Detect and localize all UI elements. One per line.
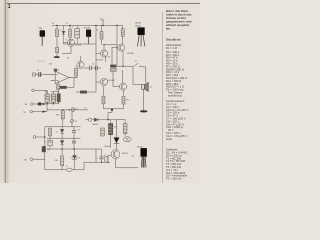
svg-text:BC548: BC548: [84, 28, 90, 30]
node pad: [111, 108, 113, 110]
potentiometer P1: [71, 108, 75, 112]
svg-text:BD242: BD242: [135, 25, 141, 27]
switch S1: [131, 63, 146, 84]
wire R14 bottom: [62, 119, 64, 127]
node dot collector: [103, 44, 104, 45]
lamp La1: [123, 137, 131, 142]
capacitor C7: [91, 66, 101, 70]
wire drop R6: [101, 26, 103, 32]
svg-text:R9: R9: [51, 92, 53, 94]
svg-text:C8: C8: [75, 121, 77, 123]
svg-text:R13: R13: [126, 100, 129, 102]
svg-text:TUN: TUN: [38, 28, 43, 30]
outline transistor TUN body: [40, 30, 45, 46]
wire drop R5: [69, 26, 71, 30]
resistor R13: [122, 96, 125, 104]
svg-text:axial: axial: [166, 137, 172, 141]
wire T1 collector: [121, 36, 123, 44]
wire bottom rail B: [84, 161, 110, 163]
wire drop D zener: [63, 26, 65, 31]
wire R3 right: [87, 91, 96, 93]
svg-text:R6: R6: [96, 30, 98, 32]
resistor Rin below opamp: [57, 81, 60, 93]
diode D3: [60, 138, 64, 149]
wire top supply rail: [52, 25, 123, 27]
wire bias rail 2: [45, 126, 81, 128]
svg-text:(2x): (2x): [131, 156, 134, 158]
svg-text:C6: C6: [92, 64, 94, 66]
svg-text:F1: F1: [66, 166, 68, 168]
resistor R17 dark: [42, 146, 46, 152]
svg-text:1N4001: 1N4001: [104, 146, 110, 148]
input jack J6: [30, 158, 33, 161]
resistor R8: [45, 94, 49, 102]
wire T6 base: [108, 155, 111, 160]
arrow J4: [43, 111, 47, 113]
capacitor C6: [84, 66, 91, 70]
wire J5: [36, 136, 45, 138]
resistor R7: [121, 29, 124, 37]
wire T0 base: [64, 42, 68, 44]
svg-text:10k: 10k: [67, 58, 70, 60]
book gutter shadow line: [5, 0, 6, 183]
capacitor C5: [72, 138, 76, 149]
resistor R1: [102, 96, 105, 104]
node dots rail 4: [61, 148, 74, 149]
svg-text:C4: C4: [44, 142, 46, 144]
svg-text:R15: R15: [114, 126, 117, 128]
resistor R16: [60, 156, 63, 166]
transistor T1 BC558: [118, 44, 125, 51]
svg-text:S1: S1: [135, 61, 137, 63]
diode D2: [60, 127, 64, 138]
page background: [0, 0, 200, 183]
svg-text:P1: P1: [76, 108, 78, 110]
resistor R9: [51, 94, 55, 102]
svg-text:C1: C1: [37, 70, 39, 72]
wire R15 top: [110, 120, 112, 124]
top rule: [7, 2, 201, 5]
svg-text:F1 = 100 mA: F1 = 100 mA: [166, 177, 182, 181]
svg-text:1N4148: 1N4148: [92, 124, 98, 126]
wire drop mid: [95, 26, 97, 45]
svg-text:ausführung: ausführung: [168, 93, 182, 97]
wire R1 top: [103, 86, 105, 96]
input jack J3: [31, 103, 34, 106]
svg-text:R1 = 1 M: R1 = 1 M: [166, 46, 178, 50]
transistor T6 output: [111, 150, 120, 159]
wire T0 junction line: [62, 53, 71, 55]
wire R3 left: [76, 91, 80, 93]
svg-text:len.: len.: [166, 26, 171, 30]
wire bank stubs top: [47, 90, 59, 94]
arrow J3: [43, 103, 47, 105]
potentiometer P2: [70, 112, 73, 127]
resistor R small left of T6: [105, 157, 108, 163]
resistor R12b: [101, 128, 105, 136]
svg-text:BD241: BD241: [122, 153, 128, 155]
wire pad down: [104, 104, 113, 120]
wire lamp left stub: [86, 119, 89, 121]
svg-text:D5: D5: [78, 158, 80, 160]
wire drop R4: [56, 26, 58, 30]
resistor R5: [69, 30, 72, 38]
LED D5: [72, 149, 77, 170]
fuse F1: [66, 168, 72, 171]
svg-text:R8: R8: [45, 92, 47, 94]
svg-text:C3: C3: [78, 129, 80, 131]
wire mid node down: [111, 47, 113, 65]
svg-text:R16: R16: [54, 160, 57, 162]
wire drop R7: [122, 26, 124, 29]
node T junction: [54, 56, 60, 58]
wire J2: [34, 89, 47, 91]
svg-text:R17: R17: [47, 149, 50, 151]
wire J4: [33, 111, 48, 113]
wire speaker down: [143, 90, 145, 111]
wire T1 base: [112, 47, 118, 49]
wire diode row right: [116, 120, 118, 137]
wire T4 area to switch: [110, 63, 117, 66]
svg-text:BC548: BC548: [97, 60, 104, 62]
caption Bild 1: [165, 9, 193, 31]
wire R16 top: [61, 149, 63, 156]
resistor Rfb2 dark horizontal: [60, 86, 67, 89]
wire T2 base: [96, 53, 100, 55]
wire T2 collector link: [104, 45, 117, 50]
svg-text:BC548: BC548: [127, 53, 134, 55]
transistor T5 driver: [77, 61, 84, 68]
wire supply vertical: [44, 127, 46, 170]
svg-text:BC558: BC558: [75, 45, 81, 47]
transistor T3 BC548C: [100, 78, 107, 85]
input jack J1: [33, 73, 36, 76]
svg-text:C9: C9: [104, 155, 106, 157]
wire T0 emitter: [70, 46, 72, 53]
outline transistor BC548 body: [86, 30, 91, 45]
capacitor C9 elco: [99, 149, 103, 162]
svg-text:D1: D1: [60, 30, 62, 32]
wire T2 emitter: [105, 56, 107, 62]
diode D4: [92, 118, 117, 122]
svg-text:T1: T1: [65, 39, 67, 41]
svg-text:4k7: 4k7: [108, 57, 111, 59]
wire R4 bottom: [56, 37, 58, 48]
input jack J2: [32, 89, 35, 92]
column divider: [161, 12, 164, 183]
resistor R10 dark: [57, 93, 61, 102]
resistor Rh dark: [110, 65, 116, 68]
resistor Ry next to R15: [123, 124, 127, 134]
node dot J5 junction: [44, 136, 45, 137]
node dot diode row: [107, 119, 108, 120]
LED row lamp: [88, 118, 91, 121]
node dots top rail: [56, 25, 117, 26]
resistor R6: [100, 32, 103, 40]
wire bias rail 4: [47, 148, 102, 150]
svg-text:C2: C2: [72, 27, 74, 29]
node dots rail B: [101, 162, 109, 163]
diode D1 top: [62, 31, 65, 44]
outline transistor BD241 body: [137, 27, 145, 46]
transistor T2 BC548: [100, 50, 107, 57]
resistor R4: [56, 29, 59, 37]
capacitor C3: [72, 127, 76, 138]
svg-text:100k: 100k: [49, 63, 53, 65]
node +15V: [102, 21, 105, 26]
wire bottom rail left: [45, 169, 67, 171]
wire D6 to T6: [116, 143, 118, 149]
wire input bus: [46, 90, 48, 111]
svg-text:R4: R4: [52, 23, 54, 25]
svg-text:C2: C2: [66, 23, 68, 25]
svg-text:Stückliste: Stückliste: [166, 38, 181, 42]
wire J3 stub: [33, 103, 38, 105]
wire R15 bottom: [110, 135, 112, 148]
resistor R12: [49, 128, 52, 136]
wire bias bus: [64, 43, 97, 45]
wire mid vertical: [95, 44, 97, 92]
svg-text:R14: R14: [56, 114, 59, 116]
wire Ry link: [117, 120, 126, 137]
svg-text:BD241: BD241: [135, 23, 141, 25]
wire R4b bottom: [56, 53, 58, 56]
wire mixer rail A: [41, 103, 58, 105]
node dot T1 emitter: [122, 66, 123, 67]
wire bias rail 3: [47, 137, 81, 139]
wire J1 stub: [36, 74, 38, 76]
resistor Rh2: [110, 69, 116, 72]
svg-text:BC548C: BC548C: [108, 80, 116, 82]
resistor Rfb feedback: [75, 68, 78, 76]
capacitor C4 elco: [48, 138, 52, 149]
wire R12 stubs: [49, 127, 51, 138]
wire J6: [33, 158, 45, 160]
wire C1 to op-amp: [41, 74, 51, 76]
loudspeaker LS1: [142, 82, 149, 91]
op-amp IC1: [51, 71, 78, 83]
wire bottom rail right: [72, 162, 84, 170]
wire Rfb top: [75, 67, 77, 69]
resistor R15 dark: [109, 124, 113, 135]
wire T_e base: [113, 72, 119, 87]
wire R5 bottom: [69, 37, 71, 44]
svg-text:0,1...1 V: 0,1...1 V: [38, 61, 45, 63]
wire drop right: [116, 26, 118, 64]
wire mixer rail B: [47, 109, 88, 111]
wire T6 emitter bottom: [116, 159, 139, 168]
wire T4 collector: [122, 70, 124, 83]
transistor T0 BC558: [67, 39, 74, 46]
capacitor C2 block: [38, 103, 42, 106]
resistor R14: [61, 111, 64, 119]
wire T4 emitter: [123, 91, 125, 97]
resistor R3 horizontal dark: [80, 91, 87, 94]
svg-text:log: log: [84, 107, 86, 109]
outline transistor BD bottom body: [141, 148, 147, 168]
wire T1 emitter down: [122, 51, 124, 66]
wire rail4 to railB: [95, 149, 97, 162]
wire Rfb2 to inverting input: [58, 86, 60, 88]
svg-text:1: 1: [8, 4, 11, 10]
wire R6 to T2: [101, 39, 103, 45]
svg-text:D2: D2: [56, 131, 58, 133]
capacitor C elco box: [75, 29, 80, 44]
resistor R2 dark: [45, 96, 48, 100]
input jack J5: [33, 136, 36, 139]
wire R16 bottom: [61, 166, 63, 170]
paper edge highlight: [0, 0, 3, 183]
wire bank stubs bottom: [47, 102, 59, 104]
wire R13 bottom: [113, 104, 123, 109]
label A1 blob: [54, 69, 57, 72]
ground chassis: [140, 110, 148, 112]
wire Rfb bottom: [75, 76, 77, 78]
wire Rh to switch: [116, 65, 131, 68]
wire T3 base: [96, 81, 100, 83]
wire op-amp feedback: [67, 78, 74, 88]
svg-text:15 V: 15 V: [100, 19, 105, 21]
wire drop C elco: [76, 26, 78, 29]
diode D6 power: [114, 138, 119, 144]
wire T5 collector: [80, 56, 82, 61]
node dots rail A: [47, 103, 55, 104]
capacitor C1: [39, 72, 41, 77]
node dots rail B2: [62, 109, 70, 110]
input jack J4: [30, 110, 33, 113]
transistor T4: [119, 83, 126, 90]
resistor R4b: [56, 47, 59, 53]
